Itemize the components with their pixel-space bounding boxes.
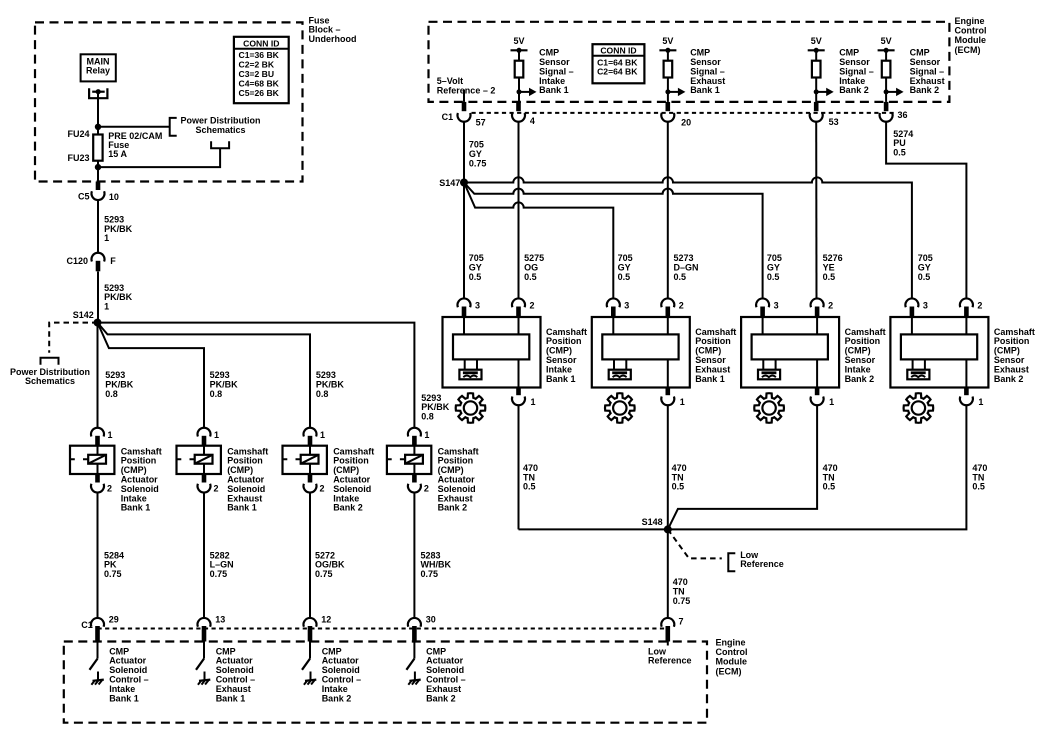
svg-text:20: 20 — [681, 117, 691, 127]
svg-text:30: 30 — [426, 615, 436, 625]
wire sensor 1 pin 1 to S148 - 470 TN 0.5 — [518, 405, 520, 529]
CONN ID box (ECM) — [593, 44, 645, 83]
svg-text:S148: S148 — [642, 517, 663, 527]
svg-text:1: 1 — [104, 302, 109, 312]
wire solenoid 1 to ECM — [97, 492, 99, 618]
svg-text:Module: Module — [716, 657, 748, 667]
svg-text:1: 1 — [320, 430, 325, 440]
connector C1 pin 36 — [884, 102, 889, 111]
svg-text:1: 1 — [104, 233, 109, 243]
sensor 1 internal wiring — [463, 317, 465, 334]
svg-text:0.8: 0.8 — [421, 412, 434, 422]
wire S142 branch to solenoid 3 — [98, 323, 311, 428]
svg-text:S142: S142 — [73, 310, 94, 320]
solenoid 2 pin 1 connector — [198, 428, 211, 437]
sensor 1 hall element — [464, 359, 466, 369]
wire fuse to C5 — [97, 167, 99, 181]
svg-text:0.75: 0.75 — [673, 596, 691, 606]
sensor 3 CMP sensor box — [741, 317, 839, 388]
sensor 1 pin 3 connector — [458, 298, 471, 307]
connector C1 pin 53 — [814, 102, 819, 111]
sensor 3 pin 2 connector — [811, 298, 824, 307]
resistor pull-up 4 — [885, 50, 887, 60]
svg-text:57: 57 — [476, 117, 486, 127]
connector C1 pin 29 — [91, 618, 104, 627]
relay K MAIN Relay box — [81, 54, 116, 81]
bracket Power Distribution Schematics (top) — [170, 118, 177, 136]
dashed reference wire from S142 to power distribution — [49, 323, 97, 353]
dashed reference wire S148 to Low Reference — [668, 529, 722, 558]
solenoid 4 pin 2 connector — [412, 474, 417, 483]
svg-text:Bank 1: Bank 1 — [121, 503, 151, 513]
svg-text:C2=2 BK: C2=2 BK — [239, 60, 275, 70]
svg-text:0.75: 0.75 — [469, 159, 487, 169]
resistor pull-up 2 — [667, 50, 669, 60]
signal arrow 4 — [884, 89, 889, 94]
svg-text:0.75: 0.75 — [315, 569, 333, 579]
connector C1 pin 4 — [516, 102, 521, 111]
sensor 2 pin 2 connector — [661, 298, 674, 307]
sensor 3 reluctor gear — [754, 393, 784, 423]
wire bracket to junction below fuse — [98, 148, 220, 167]
svg-text:FU23: FU23 — [67, 153, 89, 163]
wire S147 branch to sensor 3 pin 3 — [464, 183, 763, 299]
svg-text:0.5: 0.5 — [674, 272, 687, 282]
wire solenoid 2 to ECM — [203, 492, 205, 618]
wire pin 4 to sensor 1 pin 2 - 5275 OG 0.5 — [518, 122, 520, 299]
solenoid 3 CMP actuator solenoid box — [283, 446, 327, 474]
sensor 3 pin 1 connector — [815, 388, 820, 396]
svg-text:FU24: FU24 — [67, 129, 89, 139]
wire pin 53 to sensor 3 pin 2 - 5276 YE 0.5 — [815, 122, 817, 299]
svg-text:36: 36 — [898, 110, 908, 120]
sensor 4 reluctor gear — [904, 393, 934, 423]
solenoid 4 CMP actuator solenoid box — [387, 446, 431, 474]
sensor 4 CMP sensor box — [890, 317, 988, 388]
solenoid 3 pin 2 connector — [308, 474, 313, 483]
svg-text:0.5: 0.5 — [972, 482, 985, 492]
svg-text:0.5: 0.5 — [823, 482, 836, 492]
sensor 3 element rectangle — [752, 334, 828, 359]
svg-text:Bank 1: Bank 1 — [109, 693, 139, 703]
svg-text:0.8: 0.8 — [210, 389, 223, 399]
svg-text:0.5: 0.5 — [893, 148, 906, 158]
svg-text:0.5: 0.5 — [618, 272, 631, 282]
sensor 1 reluctor gear — [456, 393, 486, 423]
svg-text:3: 3 — [923, 301, 928, 311]
svg-text:15 A: 15 A — [108, 149, 127, 159]
junction above fuse — [95, 124, 101, 130]
svg-text:Bank 1: Bank 1 — [690, 85, 720, 95]
svg-text:Bank 1: Bank 1 — [227, 503, 257, 513]
svg-text:C4=68 BK: C4=68 BK — [239, 79, 280, 89]
svg-text:53: 53 — [829, 117, 839, 127]
sensor 4 pin 1 connector — [964, 388, 969, 396]
ECM driver switch 2 — [203, 642, 205, 659]
svg-text:Bank 2: Bank 2 — [845, 374, 875, 384]
sensor 2 reluctor gear — [605, 393, 635, 423]
sensor 2 internal wiring — [612, 317, 614, 334]
connector C1 pin 20 — [666, 102, 671, 111]
svg-text:CONN ID: CONN ID — [600, 46, 636, 56]
svg-text:7: 7 — [679, 617, 684, 627]
svg-text:10: 10 — [109, 192, 119, 202]
sensor 1 CMP sensor box — [443, 317, 541, 388]
svg-text:12: 12 — [321, 615, 331, 625]
wire solenoid 3 to ECM — [309, 492, 311, 618]
resistor pull-up 1 — [518, 50, 520, 60]
svg-text:5V: 5V — [811, 36, 822, 46]
wire sensor 3 pin 1 to S148 - 470 TN 0.5 — [668, 405, 817, 529]
svg-text:1: 1 — [214, 430, 219, 440]
connector C1 (ECM bottom) dotted line — [98, 628, 668, 630]
svg-text:2: 2 — [977, 301, 982, 311]
svg-text:0.75: 0.75 — [210, 569, 228, 579]
sensor 2 CMP sensor box — [592, 317, 690, 388]
connector C5 pin 10 — [96, 182, 101, 191]
svg-text:Bank 2: Bank 2 — [839, 85, 869, 95]
svg-text:0.5: 0.5 — [767, 272, 780, 282]
svg-text:1: 1 — [531, 397, 536, 407]
sensor 4 hall element — [912, 359, 914, 369]
sensor 4 internal wiring — [911, 317, 913, 334]
svg-text:2: 2 — [320, 484, 325, 494]
fuse FU24/FU23 PRE O2/CAM 15A — [97, 127, 99, 167]
svg-text:Reference – 2: Reference – 2 — [437, 85, 496, 95]
svg-text:0.8: 0.8 — [105, 389, 118, 399]
CONN ID box (fuse block) — [234, 37, 289, 103]
ground (ECM driver 1) — [97, 672, 99, 681]
svg-text:2: 2 — [679, 301, 684, 311]
svg-text:Bank 2: Bank 2 — [910, 85, 940, 95]
svg-text:C5: C5 — [78, 192, 90, 202]
signal arrow 3 — [814, 89, 819, 94]
svg-text:C5=26 BK: C5=26 BK — [239, 88, 280, 98]
ECM driver switch 4 — [413, 642, 415, 659]
sensor 2 pin 1 connector — [666, 388, 671, 396]
svg-text:Engine: Engine — [716, 637, 746, 647]
svg-text:C3=2 BU: C3=2 BU — [239, 69, 275, 79]
sensor 1 element rectangle — [453, 334, 529, 359]
svg-text:(ECM): (ECM) — [716, 666, 742, 676]
svg-text:1: 1 — [978, 397, 983, 407]
wire solenoid 4 to ECM — [413, 492, 415, 618]
ECM driver switch 3 — [309, 642, 311, 659]
ECM driver switch 1 — [97, 642, 99, 659]
svg-text:Underhood: Underhood — [309, 34, 357, 44]
wire pin 36 to sensor 4 pin 2 - 5274 PU 0.5 — [886, 122, 966, 299]
svg-text:Engine: Engine — [955, 16, 985, 26]
solenoid 3 pin 1 connector — [304, 428, 317, 437]
solenoid 4 pin 1 connector — [408, 428, 421, 437]
svg-text:3: 3 — [624, 301, 629, 311]
svg-text:0.8: 0.8 — [316, 389, 329, 399]
svg-text:0.75: 0.75 — [104, 569, 122, 579]
svg-text:Relay: Relay — [86, 66, 110, 76]
svg-text:0.5: 0.5 — [469, 272, 482, 282]
connector C1 pin 12 — [304, 618, 317, 627]
svg-text:Schematics: Schematics — [25, 376, 75, 386]
wire 705 GY 0.75 (pin 57 to S147) — [463, 122, 465, 183]
wire S147 branch to sensor 4 pin 3 — [464, 177, 912, 298]
wire S148 to ECM pin 7 - 470 TN 0.75 — [667, 529, 669, 618]
connector C1 pin 57 — [462, 102, 467, 111]
wire S142 branch to solenoid 2 — [98, 323, 205, 428]
svg-text:1: 1 — [108, 430, 113, 440]
svg-text:3: 3 — [774, 301, 779, 311]
svg-text:4: 4 — [530, 116, 535, 126]
svg-text:0.5: 0.5 — [918, 272, 931, 282]
solenoid 1 pin 1 connector — [91, 428, 104, 437]
svg-text:Bank 2: Bank 2 — [426, 693, 456, 703]
svg-text:Module: Module — [955, 35, 987, 45]
connector C120 pin F — [92, 253, 105, 262]
sensor 3 pin 3 connector — [756, 298, 769, 307]
svg-text:2: 2 — [530, 301, 535, 311]
wire S147 down to sensor 1 pin 3 - 705 GY 0.5 — [463, 183, 465, 299]
wire 5293 PK/BK 1 (C5 to C120) — [97, 200, 99, 253]
wire MAIN relay to fuse — [97, 93, 99, 127]
junction below fuse — [95, 164, 101, 170]
svg-text:Bank 2: Bank 2 — [994, 374, 1024, 384]
ground (ECM driver 2) — [204, 672, 206, 681]
svg-text:(ECM): (ECM) — [955, 45, 981, 55]
svg-text:C1: C1 — [442, 112, 454, 122]
sensor 3 hall element — [762, 359, 764, 369]
sensor 2 element rectangle — [602, 334, 678, 359]
bracket power distribution schematics (S142) — [41, 358, 59, 365]
sensor 2 pin 3 connector — [607, 298, 620, 307]
sensor 4 pin 2 connector — [960, 298, 973, 307]
svg-text:2: 2 — [424, 484, 429, 494]
sensor 2 hall element — [613, 359, 615, 369]
svg-text:5V: 5V — [881, 36, 892, 46]
svg-text:Bank 1: Bank 1 — [695, 374, 725, 384]
wire S142 down to solenoid 1 - 5293 PK/BK 0.8 — [97, 323, 99, 428]
wire 5293 PK/BK 1 (C120 to S142) — [97, 272, 99, 323]
wire sensor 2 pin 1 to S148 - 470 TN 0.5 — [667, 405, 669, 529]
svg-text:Reference: Reference — [648, 656, 692, 666]
svg-text:5V: 5V — [662, 36, 673, 46]
svg-text:Bank 2: Bank 2 — [322, 693, 352, 703]
engine control module (top) dashed box — [429, 22, 950, 102]
MAIN relay output reference symbol — [89, 88, 107, 98]
wire S142 branch to solenoid 4 — [98, 323, 415, 428]
connector C1 pin 13 — [198, 618, 211, 627]
signal arrow 1 — [517, 89, 522, 94]
svg-text:2: 2 — [828, 301, 833, 311]
bracket Low Reference (S148) — [728, 553, 735, 571]
svg-text:2: 2 — [214, 484, 219, 494]
wire 5-volt reference stub — [463, 90, 465, 102]
wire S147 branch to sensor 2 pin 3 — [464, 183, 613, 299]
svg-text:29: 29 — [109, 615, 119, 625]
S148 horizontal from sensor1 — [519, 528, 668, 530]
svg-text:1: 1 — [680, 397, 685, 407]
svg-text:Control: Control — [955, 26, 987, 36]
connector C1 pin 7 — [661, 618, 674, 627]
ground (ECM driver 3) — [310, 672, 312, 681]
sensor 4 pin 3 connector — [905, 298, 918, 307]
svg-text:5V: 5V — [513, 36, 524, 46]
ECM low reference stub — [667, 642, 669, 646]
svg-text:0.75: 0.75 — [421, 569, 439, 579]
svg-text:Bank 1: Bank 1 — [546, 374, 576, 384]
svg-text:S147: S147 — [439, 178, 460, 188]
svg-text:C2=64 BK: C2=64 BK — [597, 67, 638, 77]
solenoid 1 CMP actuator solenoid box — [70, 446, 114, 474]
svg-text:Schematics: Schematics — [195, 125, 245, 135]
sensor 4 element rectangle — [901, 334, 977, 359]
svg-text:1: 1 — [424, 430, 429, 440]
connector C1 (ECM top) dotted line — [472, 112, 896, 114]
svg-text:0.5: 0.5 — [672, 482, 685, 492]
resistor pull-up 3 — [815, 50, 817, 60]
connector C1 pin 30 — [408, 618, 421, 627]
ground (ECM driver 4) — [414, 672, 416, 681]
svg-text:0.5: 0.5 — [523, 482, 536, 492]
svg-text:0.5: 0.5 — [823, 272, 836, 282]
svg-text:C1=36 BK: C1=36 BK — [239, 50, 280, 60]
svg-text:CONN ID: CONN ID — [243, 38, 279, 48]
svg-text:Reference: Reference — [740, 559, 784, 569]
svg-text:Control: Control — [716, 647, 748, 657]
solenoid 2 pin 2 connector — [202, 474, 207, 483]
sensor 1 pin 1 connector — [516, 388, 521, 396]
svg-text:Bank 1: Bank 1 — [216, 693, 246, 703]
svg-text:0.5: 0.5 — [524, 272, 537, 282]
signal arrow 2 — [665, 89, 670, 94]
solenoid 2 CMP actuator solenoid box — [177, 446, 221, 474]
engine control module (bottom) dashed box — [64, 642, 707, 723]
sensor 3 internal wiring — [762, 317, 764, 334]
svg-text:Bank 2: Bank 2 — [333, 503, 363, 513]
svg-text:13: 13 — [215, 615, 225, 625]
solenoid 1 pin 2 connector — [95, 474, 100, 483]
svg-text:F: F — [110, 256, 116, 266]
fuse block underhood dashed box — [35, 22, 303, 181]
sensor 1 pin 2 connector — [512, 298, 525, 307]
svg-text:C120: C120 — [66, 256, 88, 266]
svg-text:2: 2 — [107, 484, 112, 494]
svg-text:Bank 2: Bank 2 — [438, 503, 468, 513]
svg-text:3: 3 — [475, 301, 480, 311]
bracket under Power Distribution Schematics — [211, 141, 229, 148]
svg-text:1: 1 — [829, 397, 834, 407]
wire sensor 4 pin 1 to S148 - 470 TN 0.5 — [668, 405, 967, 529]
wire pin 20 to sensor 2 pin 2 - 5273 D-GN 0.5 — [667, 122, 669, 299]
wire junction to power distribution bracket — [98, 126, 170, 128]
svg-text:Bank 1: Bank 1 — [539, 85, 569, 95]
